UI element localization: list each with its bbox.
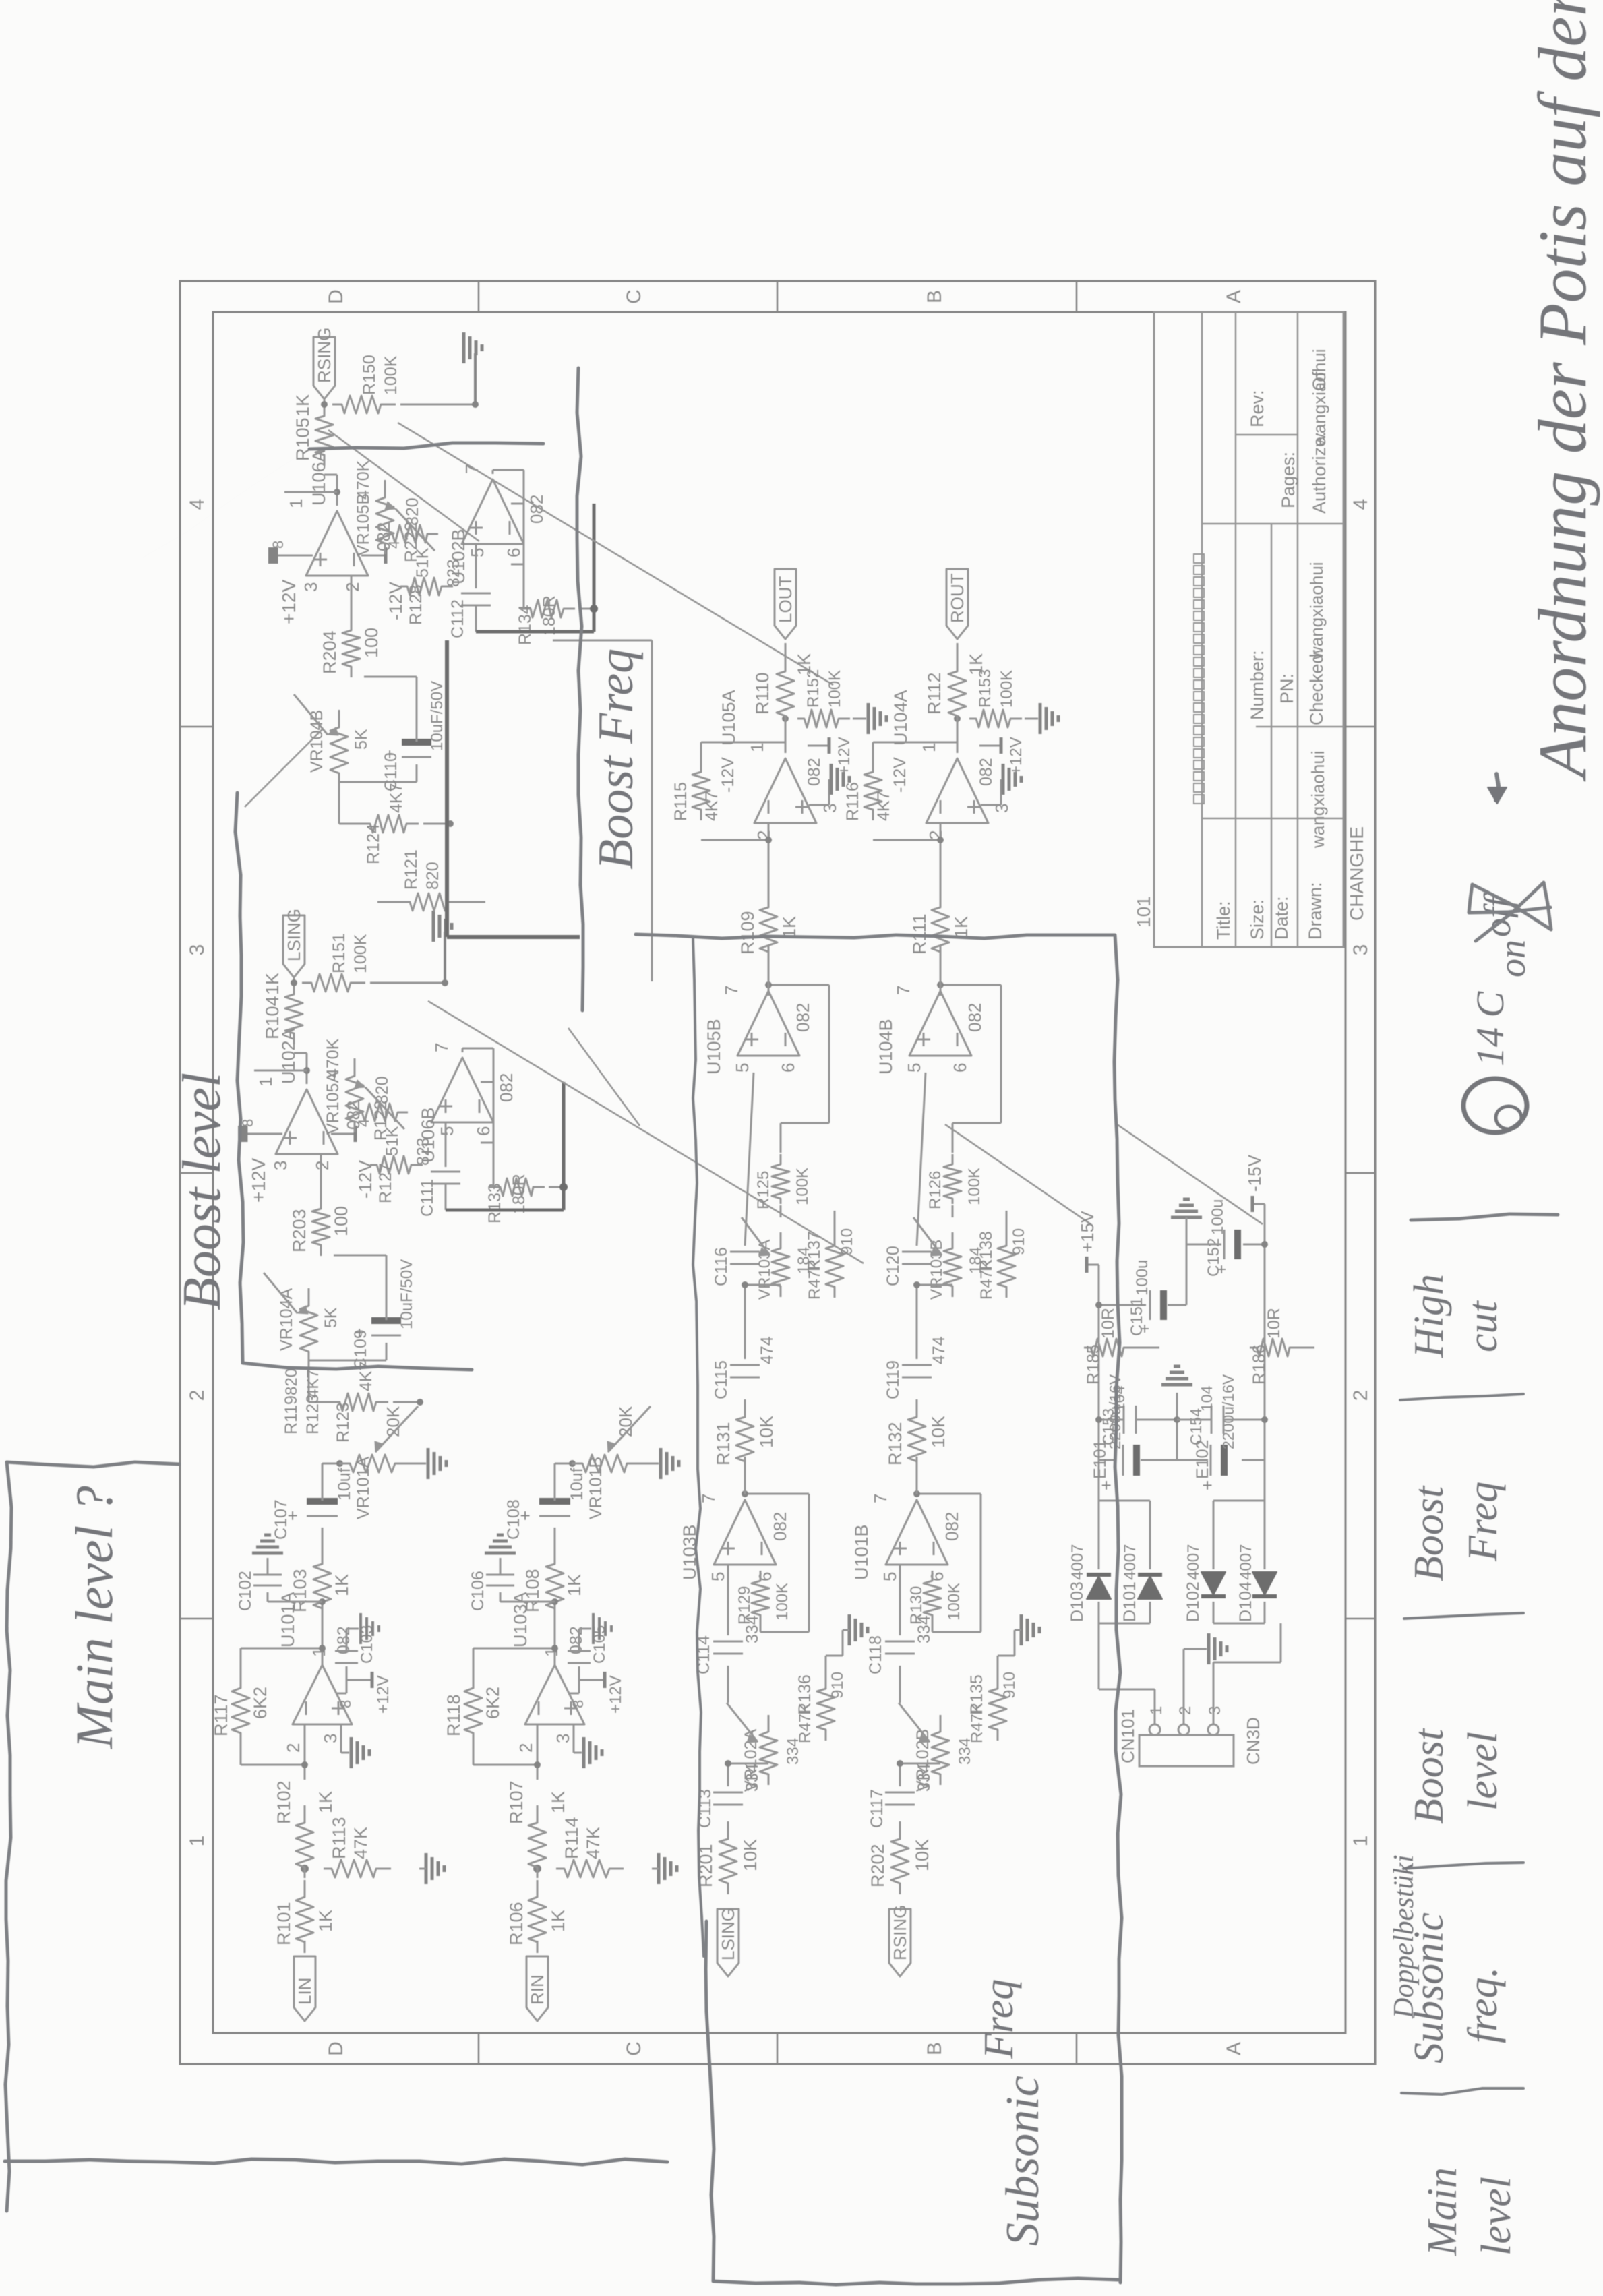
potentiometer VR103B 184 <box>944 1232 961 1297</box>
svg-text:R126: R126 <box>926 1171 944 1209</box>
capacitor C117 334 <box>885 1804 915 1806</box>
border column ticks <box>180 1618 213 1620</box>
svg-text:474: 474 <box>930 1336 948 1364</box>
svg-text:1K: 1K <box>548 1910 568 1932</box>
svg-text:A: A <box>1223 290 1245 303</box>
svg-text:5: 5 <box>732 1063 752 1073</box>
svg-text:4K7: 4K7 <box>304 1369 322 1398</box>
node junction <box>301 1865 309 1873</box>
thick interconnect wire <box>445 640 449 937</box>
svg-text:R123: R123 <box>334 1402 353 1443</box>
diagonal wire subsonic VR103A <box>945 1124 1091 1224</box>
svg-text:C111: C111 <box>418 1179 437 1217</box>
svg-text:R133: R133 <box>485 1183 504 1223</box>
resistor R185 10R <box>1084 1339 1135 1356</box>
resistor R138 910 R47K <box>998 1229 1015 1298</box>
wire to op-amp <box>304 1724 306 1780</box>
potentiometer VR105B 470K <box>376 480 394 554</box>
svg-text:Size:: Size: <box>1247 899 1267 940</box>
feedback resistor R129 100K <box>752 1571 769 1621</box>
svg-text:100u: 100u <box>1209 1199 1227 1235</box>
svg-text:5: 5 <box>880 1572 900 1581</box>
wire <box>537 1941 539 1947</box>
svg-text:3: 3 <box>301 582 321 592</box>
svg-text:C120: C120 <box>884 1246 903 1286</box>
svg-text:R106: R106 <box>506 1902 526 1945</box>
resistor R134 180R <box>524 600 575 617</box>
svg-text:R105: R105 <box>293 417 313 461</box>
title block chinese title squares <box>1194 795 1204 804</box>
svg-text:R125: R125 <box>754 1171 773 1209</box>
resistor R111 1K <box>932 890 949 963</box>
resistor R203 100 <box>312 1192 330 1256</box>
svg-text:C119: C119 <box>884 1360 903 1399</box>
svg-text:6: 6 <box>504 548 524 557</box>
svg-text:4K7: 4K7 <box>387 783 406 813</box>
svg-text:1: 1 <box>255 1077 276 1087</box>
connector RSING <box>324 404 326 410</box>
svg-text:4007: 4007 <box>1121 1544 1139 1580</box>
svg-text:1K: 1K <box>262 973 282 995</box>
op-amp U101B <box>886 1500 948 1565</box>
resistor R152 100K to ground <box>797 710 850 727</box>
ground rail <box>444 932 446 983</box>
svg-text:7: 7 <box>893 986 913 995</box>
svg-text:C102: C102 <box>236 1571 255 1611</box>
capacitor C120 <box>902 1263 932 1265</box>
capacitor C118 334 <box>899 1666 901 1703</box>
svg-text:VR101B: VR101B <box>586 1457 605 1519</box>
resistor R137 910 R47K <box>826 1229 843 1298</box>
svg-text:R109: R109 <box>737 911 758 955</box>
svg-text:10K: 10K <box>912 1839 932 1871</box>
svg-text:U104A: U104A <box>890 690 911 746</box>
svg-text:R115: R115 <box>671 782 690 821</box>
svg-text:High: High <box>1406 1274 1452 1358</box>
svg-text:R118: R118 <box>444 1694 464 1736</box>
capacitor C153 104 <box>1123 1406 1125 1434</box>
diagonal wiper wire 2 <box>328 430 479 541</box>
connector LSING <box>293 983 295 988</box>
svg-text:100K: 100K <box>826 670 844 708</box>
potentiometer VR101A 20K <box>322 1463 340 1465</box>
feedback resistor R130 100K <box>924 1571 941 1621</box>
capacitor E102 2200u/16V <box>1242 1459 1265 1461</box>
svg-text:104: 104 <box>1110 1385 1128 1412</box>
svg-text:U104B: U104B <box>876 1019 896 1075</box>
capacitor C102 <box>268 1601 322 1603</box>
svg-text:1K: 1K <box>564 1574 584 1596</box>
svg-text:1K: 1K <box>315 1910 336 1932</box>
svg-text:10uf: 10uf <box>568 1468 586 1501</box>
resistor R123 4K7 <box>333 1393 388 1411</box>
svg-text:D104: D104 <box>1236 1581 1255 1622</box>
svg-text:R135: R135 <box>967 1674 986 1715</box>
output wire <box>768 945 770 996</box>
connector RSING <box>889 1909 911 1976</box>
diode D103 4007 <box>1087 1576 1111 1599</box>
op-amp U103B <box>714 1500 776 1565</box>
svg-text:PN:: PN: <box>1277 673 1297 704</box>
svg-text:6: 6 <box>950 1063 970 1073</box>
svg-text:823: 823 <box>444 559 463 587</box>
svg-text:B: B <box>924 2042 946 2055</box>
svg-text:910: 910 <box>828 1672 847 1699</box>
resistor R222 820 <box>387 525 438 543</box>
svg-text:D103: D103 <box>1068 1581 1087 1622</box>
op-amp U101A <box>293 1665 352 1724</box>
resistor R114 47K <box>556 1860 624 1877</box>
svg-text:level: level <box>1474 2177 1519 2256</box>
svg-text:R131: R131 <box>713 1422 733 1466</box>
resistor R131 10K <box>736 1399 754 1472</box>
svg-text:100K: 100K <box>998 670 1016 708</box>
svg-text:R117: R117 <box>211 1694 231 1736</box>
svg-text:474: 474 <box>758 1336 777 1364</box>
feedback resistor R118 6K2 <box>464 1671 482 1744</box>
svg-text:Doppelbestüki: Doppelbestüki <box>1389 1854 1420 2019</box>
svg-text:D102: D102 <box>1184 1581 1203 1622</box>
svg-text:Freq: Freq <box>976 1979 1022 2059</box>
op-amp U105B <box>737 991 799 1056</box>
svg-text:820: 820 <box>403 497 422 526</box>
diagonal wiper wire 1 <box>568 1028 640 1126</box>
diode D101 4007 <box>1138 1576 1162 1599</box>
resistor R150 100K <box>332 396 396 413</box>
svg-text:1K: 1K <box>548 1791 568 1813</box>
svg-text:1: 1 <box>1350 1836 1372 1847</box>
title block grid lines <box>1201 312 1203 947</box>
svg-text:5: 5 <box>467 548 487 557</box>
feedback resistor R126 100K <box>944 1154 961 1204</box>
svg-text:Subsonic: Subsonic <box>997 2076 1049 2246</box>
svg-text:47K: 47K <box>351 1827 371 1859</box>
svg-text:R150: R150 <box>360 355 379 395</box>
svg-text:R104: R104 <box>262 996 282 1039</box>
svg-text:C107: C107 <box>272 1499 291 1540</box>
svg-text:082: 082 <box>496 1073 516 1102</box>
svg-text:R101: R101 <box>274 1902 294 1945</box>
svg-text:082: 082 <box>793 1003 813 1032</box>
svg-text:+12V: +12V <box>248 1158 269 1203</box>
op-amp U105A inverting <box>754 758 816 823</box>
svg-text:+: + <box>1197 1480 1217 1490</box>
capacitor C111 823 <box>445 1122 447 1167</box>
ground <box>848 1614 851 1645</box>
svg-text:R127: R127 <box>376 1163 395 1203</box>
svg-text:Pages:: Pages: <box>1278 452 1298 508</box>
svg-text:LSING: LSING <box>718 1908 738 1960</box>
resistor R136 910 R47K <box>817 1672 835 1741</box>
ground between C151 C152 <box>1186 1244 1188 1305</box>
svg-text:R129: R129 <box>735 1586 754 1625</box>
op-amp U102B <box>462 479 524 544</box>
svg-text:C: C <box>623 289 645 304</box>
svg-text:10uF/50V: 10uF/50V <box>428 681 446 751</box>
power +12V <box>289 555 313 557</box>
svg-text:10R: 10R <box>1099 1308 1118 1339</box>
svg-text:5: 5 <box>904 1063 924 1073</box>
svg-text:C108: C108 <box>504 1499 523 1540</box>
power +12V bypass <box>808 745 829 747</box>
svg-text:freq.: freq. <box>1460 1967 1506 2043</box>
connector ROUT <box>957 643 959 661</box>
svg-text:1K: 1K <box>951 916 971 938</box>
svg-text:6: 6 <box>473 1126 493 1136</box>
resistor R186 10R <box>1250 1339 1301 1356</box>
op-amp U103A <box>525 1665 584 1724</box>
power -12V <box>361 555 386 557</box>
gyrator wires <box>481 1142 493 1144</box>
node <box>319 1598 326 1605</box>
svg-text:082: 082 <box>526 495 547 524</box>
op-amp U104B <box>909 991 971 1056</box>
svg-text:D101: D101 <box>1120 1581 1139 1622</box>
svg-text:ROUT: ROUT <box>947 573 967 623</box>
ground at + input <box>981 804 1001 806</box>
resistor R132 10K <box>908 1399 926 1472</box>
svg-text:R114: R114 <box>562 1817 582 1859</box>
svg-text:R203: R203 <box>289 1209 309 1252</box>
power bypass C103 +12V <box>336 1693 346 1695</box>
svg-text:C: C <box>623 2041 645 2056</box>
wire to op-amp <box>537 1724 539 1780</box>
svg-text:U105B: U105B <box>704 1019 724 1075</box>
capacitor C106 <box>500 1601 555 1603</box>
svg-text:100K: 100K <box>773 1583 791 1621</box>
ground under potentiometer <box>411 1463 426 1465</box>
svg-text:R153: R153 <box>976 669 994 708</box>
svg-text:8: 8 <box>570 1700 586 1708</box>
svg-text:5: 5 <box>437 1126 457 1136</box>
svg-text:4007: 4007 <box>1068 1544 1087 1580</box>
feedback wires <box>473 1764 537 1766</box>
svg-text:R124: R124 <box>364 824 383 864</box>
power +12V <box>258 1133 282 1135</box>
resistor R135 910 R47K <box>989 1672 1006 1741</box>
svg-text:VR105A: VR105A <box>324 1072 342 1135</box>
svg-text:2: 2 <box>283 1743 303 1753</box>
capacitor C112 823 <box>475 544 477 588</box>
svg-text:2: 2 <box>186 1390 208 1401</box>
svg-text:A: A <box>1223 2042 1245 2055</box>
resistor R110 1K <box>777 654 794 727</box>
svg-text:CN3D: CN3D <box>1243 1717 1263 1765</box>
resistor R204 100 <box>342 614 360 677</box>
svg-text:C154: C154 <box>1187 1408 1205 1445</box>
ground <box>1020 1614 1023 1645</box>
capacitor C154 104 <box>1211 1406 1213 1434</box>
svg-text:10K: 10K <box>740 1839 760 1871</box>
svg-text:Boost: Boost <box>1406 1485 1452 1581</box>
svg-text:100K: 100K <box>793 1168 812 1205</box>
pencil bracket main level <box>5 1462 179 2211</box>
resistor R124 4K7 <box>363 815 419 833</box>
svg-text:6: 6 <box>755 1572 775 1581</box>
svg-text:R204: R204 <box>320 630 340 674</box>
svg-text:R151: R151 <box>330 933 349 973</box>
svg-text:-12V: -12V <box>386 582 406 620</box>
op-amp U104A inverting <box>926 758 988 823</box>
svg-text:3: 3 <box>1206 1706 1224 1715</box>
svg-text:104: 104 <box>1198 1385 1215 1412</box>
svg-text:Boost level: Boost level <box>173 1073 232 1310</box>
svg-text:R119: R119 <box>282 1395 301 1434</box>
pencil circled 14C on/off <box>1463 1079 1527 1132</box>
svg-text:C118: C118 <box>866 1635 885 1674</box>
svg-text:-15V: -15V <box>1244 1154 1265 1192</box>
diode D104 4007 <box>1252 1572 1277 1595</box>
potentiometer VR103A 184 <box>772 1232 789 1297</box>
ground mid <box>1207 1633 1211 1664</box>
wires to diode bridge <box>1099 1689 1155 1691</box>
svg-text:C106: C106 <box>468 1571 487 1611</box>
resistor R127 51K <box>370 1156 423 1174</box>
svg-text:6: 6 <box>927 1572 947 1581</box>
svg-text:VR101A: VR101A <box>354 1457 373 1519</box>
svg-text:5: 5 <box>708 1572 728 1581</box>
svg-text:Boost Freq: Boost Freq <box>588 648 644 870</box>
feedback wire <box>336 475 338 506</box>
output node <box>785 719 787 753</box>
svg-text:R102: R102 <box>274 1780 294 1824</box>
svg-text:180R: 180R <box>540 595 559 636</box>
potentiometer VR104A 5K <box>300 1288 317 1362</box>
pencil outline subsonic region <box>636 934 1122 2283</box>
svg-text:7: 7 <box>698 1494 719 1503</box>
svg-text:+15V: +15V <box>1077 1211 1097 1252</box>
+15V flag <box>1087 1264 1099 1266</box>
power +12V bypass <box>979 745 1001 747</box>
svg-text:C116: C116 <box>712 1247 731 1286</box>
resistor R202 10K <box>891 1821 909 1894</box>
svg-text:4: 4 <box>186 499 208 510</box>
output node <box>957 719 959 753</box>
svg-text:082: 082 <box>965 1003 985 1032</box>
potentiometer VR105A 470K <box>346 1058 363 1132</box>
feedback resistor R117 6K2 <box>232 1671 249 1744</box>
svg-text:R113: R113 <box>329 1817 349 1859</box>
resistor R108 1K <box>546 1546 564 1619</box>
capacitor C113 334 <box>713 1804 743 1806</box>
svg-text:3: 3 <box>320 1734 340 1743</box>
svg-text:5K: 5K <box>352 729 371 750</box>
resistor R113 47K <box>324 1860 391 1877</box>
inner border frame <box>213 312 1345 2033</box>
svg-text:on: on <box>1492 940 1534 977</box>
svg-text:level: level <box>1460 1732 1506 1811</box>
svg-text:3: 3 <box>186 944 208 956</box>
resistor R106 1K <box>528 1880 546 1953</box>
resistor R153 100K to ground <box>969 710 1022 727</box>
svg-text:B: B <box>924 290 946 303</box>
output resistor R105 1K <box>315 400 333 466</box>
svg-text:1K: 1K <box>293 394 313 417</box>
connector LIN <box>294 1956 315 2021</box>
long interconnect wire boost to subsonic <box>651 640 653 981</box>
svg-text:RIN: RIN <box>527 1974 547 2005</box>
svg-text:100K: 100K <box>965 1168 984 1205</box>
resistor R112 1K <box>948 654 966 727</box>
svg-text:cut: cut <box>1460 1300 1506 1352</box>
svg-text:100K: 100K <box>351 934 370 973</box>
svg-text:820: 820 <box>423 862 442 890</box>
connector RIN <box>526 1956 548 2021</box>
svg-text:Date:: Date: <box>1271 896 1292 940</box>
svg-text:R107: R107 <box>506 1780 526 1824</box>
wire -15V <box>1264 1204 1266 1325</box>
svg-text:910: 910 <box>838 1228 856 1255</box>
svg-text:082: 082 <box>977 758 996 786</box>
svg-text:1K: 1K <box>315 1791 336 1813</box>
svg-text:51K: 51K <box>383 1126 402 1156</box>
capacitor C119 474 <box>902 1377 932 1379</box>
rail wires <box>1099 1500 1150 1502</box>
pencil outline boost region <box>235 793 472 1370</box>
node junction <box>533 1865 541 1873</box>
ground <box>657 1853 661 1884</box>
potentiometer VR102B <box>932 1715 949 1785</box>
svg-text:+12V: +12V <box>374 1675 392 1714</box>
svg-text:R123: R123 <box>303 1394 322 1434</box>
svg-text:R130: R130 <box>907 1586 926 1625</box>
svg-text:1: 1 <box>919 743 939 752</box>
resistor R128 51K <box>400 578 453 595</box>
svg-text:R185: R185 <box>1084 1344 1103 1385</box>
svg-text:470K: 470K <box>324 1038 342 1078</box>
svg-text:Freq: Freq <box>1460 1482 1506 1562</box>
svg-text:LOUT: LOUT <box>775 576 795 623</box>
svg-text:R116: R116 <box>843 782 862 821</box>
svg-text:+12V: +12V <box>278 580 299 624</box>
ground under potentiometer <box>644 1463 659 1465</box>
potentiometer VR104B 5K <box>330 710 348 784</box>
svg-text:3: 3 <box>1350 944 1372 956</box>
svg-text:100: 100 <box>331 1206 351 1236</box>
svg-text:Main level ?: Main level ? <box>65 1486 123 1749</box>
svg-text:R128: R128 <box>406 584 425 625</box>
svg-text:R121: R121 <box>402 849 421 890</box>
svg-text:100K: 100K <box>382 355 400 395</box>
op-amp U106A <box>306 511 368 576</box>
svg-text:10uf: 10uf <box>335 1468 354 1501</box>
svg-text:C112: C112 <box>448 599 467 638</box>
svg-text:R136: R136 <box>795 1674 814 1715</box>
svg-text:1: 1 <box>1147 1706 1166 1715</box>
svg-text:CHANGHE: CHANGHE <box>1346 826 1367 921</box>
ground at + input <box>809 804 829 806</box>
svg-text:6: 6 <box>778 1063 798 1073</box>
potentiometer VR102A <box>760 1715 777 1785</box>
svg-text:R112: R112 <box>924 672 944 715</box>
svg-text:10R: 10R <box>1265 1308 1283 1339</box>
svg-text:14 C: 14 C <box>1468 991 1512 1067</box>
svg-text:Number:: Number: <box>1247 650 1267 720</box>
svg-text:2200u/16V: 2200u/16V <box>1219 1374 1237 1449</box>
svg-text:4K7: 4K7 <box>874 791 893 821</box>
svg-text:D: D <box>325 2041 347 2056</box>
ground rail <box>474 353 477 404</box>
svg-text:R108: R108 <box>522 1569 543 1612</box>
capacitor C151 100u <box>1099 1304 1146 1306</box>
coupling capacitor C107 10uf <box>322 1528 324 1550</box>
op-amp U102A <box>276 1089 338 1154</box>
op-amp U106B <box>431 1058 493 1122</box>
ground rail power <box>1176 1393 1178 1460</box>
resistor R122 820 <box>357 1104 408 1121</box>
svg-text:R103: R103 <box>290 1569 310 1612</box>
capacitor C109 10uF/50V <box>309 1360 386 1362</box>
